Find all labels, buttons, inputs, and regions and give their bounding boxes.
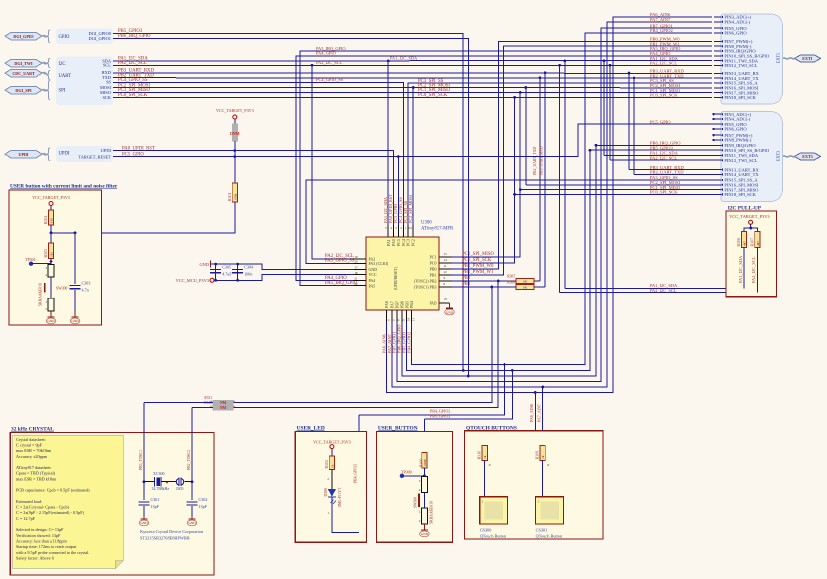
power flag VCC_TARGET_P3V3 at user button [49,202,53,206]
svg-text:PC4_GPIO_SS: PC4_GPIO_SS [316,77,344,82]
mcu right pin PB2 [439,280,452,282]
junction [74,232,77,235]
capacitor C301 [139,501,150,503]
mcu bottom pin PB7 [396,310,398,322]
svg-text:Kyocera Crystal Device Corpora: Kyocera Crystal Device Corporation [140,529,204,534]
svg-text:ST3215SB32768E0HPWBB: ST3215SB32768E0HPWBB [140,536,190,541]
LED D300 [328,489,336,496]
junction [524,86,527,89]
svg-text:PA7_AIN7: PA7_AIN7 [650,17,671,22]
svg-text:PA0_UPDI_RST: PA0_UPDI_RST [122,146,155,151]
svg-text:(TOSC2) PB2: (TOSC2) PB2 [414,279,437,284]
svg-text:DNM: DNM [230,131,240,136]
svg-text:DGI_GPIO0: DGI_GPIO0 [89,31,112,36]
ground at MCU PAD [449,306,451,309]
junction [541,386,544,389]
wire GND rail [210,264,354,269]
svg-text:J305: J305 [176,486,184,491]
svg-text:UPDI: UPDI [59,151,70,156]
svg-text:11: 11 [444,264,447,268]
EXT3 pin 8 stub [714,139,721,141]
wire PA6_AIN6 [387,17,712,393]
junction [233,149,236,152]
svg-text:PA4_GPIO: PA4_GPIO [325,276,347,281]
junction [462,369,465,372]
wire MISO to EXT3 PIN17 [520,189,716,191]
mcu top pin PA0 [392,225,394,237]
EXT3 unconnected pin 3 node [712,113,714,115]
EXT1 pin 7 stub [714,40,721,42]
mcu left pin GND [354,268,367,270]
svg-text:VCC_TARGET_P3V3: VCC_TARGET_P3V3 [32,195,70,200]
box QTOUCH BUTTONS [465,431,604,539]
wire PA3_GPIO_SS [306,180,716,263]
junction [544,71,547,74]
svg-text:PA1_I2C_SDA: PA1_I2C_SDA [390,56,418,61]
resistor R312 DNM [213,405,233,410]
wire PB4_GPIO2 to USER_LED [359,365,504,415]
svg-text:PA2_I2C_SCL: PA2_I2C_SCL [650,155,677,160]
ground at C303 [74,315,76,318]
svg-text:EXT1: EXT1 [802,56,812,61]
svg-text:R309: R309 [536,451,540,459]
junction [497,280,500,283]
wire PB1_PWM_W1 [452,46,712,275]
svg-text:1: 1 [537,500,539,504]
DGI com block [56,57,113,106]
net tag UPDI [5,150,42,158]
svg-text:with a 9.5pF probe connected t: with a 9.5pF probe connected to the crys… [16,550,89,555]
power flag VCC_MCU_P3V3 [210,278,214,282]
svg-text:U300: U300 [421,221,432,226]
svg-text:SW300: SW300 [56,287,67,291]
svg-text:VCC: VCC [369,272,378,277]
svg-text:PA3_GPIO_SS: PA3_GPIO_SS [325,259,355,264]
svg-text:PB4_GPIO2: PB4_GPIO2 [354,464,358,483]
svg-text:PB1_PWM_W1: PB1_PWM_W1 [462,270,494,275]
svg-text:100R: 100R [423,459,427,467]
svg-text:UART: UART [59,74,72,79]
wire TP300 to node [402,475,425,477]
wire PB6_IRQ_GPIO bottom [402,145,716,376]
EXT3 pin 10 stub [714,149,721,151]
EXT3 pin 7 stub [714,134,721,136]
wire R310 to CS300 [484,460,486,496]
wire R304 to node [50,225,52,243]
wire SCL branch to pull-up [559,65,561,292]
box 32 kHz CRYSTAL [10,433,214,575]
wire PA5_IRQ_GPIO [300,51,712,286]
junction [467,375,470,378]
svg-text:EXT3: EXT3 [802,154,812,159]
junction [490,286,493,289]
junction [143,480,146,483]
svg-text:EXT1: EXT1 [776,53,781,63]
junction [236,279,239,282]
wire PA0_UPDI_RST [113,151,393,225]
EXT1 pin 15 stub [714,82,721,84]
net tag DGI_SPI [5,86,42,94]
wire to C303 [74,233,76,284]
svg-text:QTouch Button: QTouch Button [480,534,507,539]
wire C304 leads [237,264,239,280]
svg-text:C = 2x(Ccrystal- Cpara - Cpcb): C = 2x(Ccrystal- Cpara - Cpcb) [16,505,70,510]
svg-text:TARGET_RESET: TARGET_RESET [78,154,111,159]
svg-text:PIN6_GPIO: PIN6_GPIO [724,31,747,36]
wire PB5_GPIO3 bottom [407,150,716,370]
svg-text:R302: R302 [325,460,329,468]
box USER button with current limit [9,190,102,325]
wire RXD to EXT3 PIN13 [629,169,716,171]
svg-text:PA6_AIN6: PA6_AIN6 [529,404,534,422]
capacitor C302 [187,501,198,503]
svg-text:SKRAAKE010: SKRAAKE010 [39,283,43,306]
svg-text:32 kHz CRYSTAL: 32 kHz CRYSTAL [11,427,54,433]
wire PB3_UART_RXD [113,72,712,75]
svg-text:R306: R306 [507,281,515,285]
wire PB2_UART_TXD [113,77,712,80]
wire to C301 [143,482,145,500]
svg-text:PB0: PB0 [430,267,437,272]
wire RXD branch to EXT3 [628,73,630,170]
EXT1 pin 4 stub [714,21,721,23]
svg-text:SCK: SCK [102,95,111,100]
svg-text:PA7_AIN7: PA7_AIN7 [536,404,541,422]
jumper J305 [176,479,178,485]
capacitor C304 [232,269,243,271]
svg-text:GPIO: GPIO [59,35,71,40]
box USER_BUTTON [377,432,453,543]
svg-text:11: 11 [411,318,415,321]
EXT3 pin 13 stub [714,169,721,171]
wire C302 to GND [191,506,193,517]
svg-text:PA5: PA5 [369,283,376,288]
svg-text:VCC_TARGET_P3V3: VCC_TARGET_P3V3 [729,214,770,219]
wire MOSI to EXT3 PIN16 [526,184,716,186]
svg-text:DGI_SPI: DGI_SPI [15,88,32,93]
wire PB3 to R306 [452,286,492,288]
EXT3 pin 5 stub [714,123,721,125]
svg-text:GND: GND [369,267,378,272]
wire TP301 to switch [31,263,51,265]
svg-text:GND: GND [421,532,429,536]
wire C305 leads [215,264,217,280]
svg-text:13pF: 13pF [151,504,160,509]
switch SW300 [48,264,54,277]
svg-text:PC0_SPI_SCK: PC0_SPI_SCK [650,93,678,98]
svg-text:4.7n: 4.7n [82,288,89,293]
svg-text:EXT3: EXT3 [776,151,781,161]
wire SCL to EXT3 PIN12 [610,159,716,161]
svg-text:PA2_I2C_SCL: PA2_I2C_SCL [316,60,343,65]
svg-text:C304: C304 [244,265,253,270]
svg-text:2k2: 2k2 [50,252,54,257]
svg-text:Verification showed: 13pF: Verification showed: 13pF [16,533,61,538]
svg-text:R307: R307 [750,238,754,246]
svg-text:Safety factor: Above 6: Safety factor: Above 6 [16,556,54,561]
svg-text:R305: R305 [507,275,515,279]
EXT1 pin 10 stub [714,55,721,57]
wire MOSI branch to EXT3 [525,88,527,185]
svg-text:PC0: PC0 [430,261,437,266]
wire VCC to R307 [744,224,751,231]
wire PC5 to R301 [234,157,236,183]
svg-text:DGI_GPIO1: DGI_GPIO1 [89,36,111,41]
EXT3 pin 18 stub [714,193,721,195]
svg-text:PCB capacitance: Cpcb = 0.5pF: PCB capacitance: Cpcb = 0.5pF (estimated… [16,488,90,493]
wire PB5_GPIO3 from DGI_GPIO0 [113,33,463,370]
mcu bottom pin PA7 [391,310,393,322]
svg-text:PA6: PA6 [384,301,389,308]
wire SW300 to GND [50,311,52,315]
svg-text:R306: R306 [737,238,741,246]
svg-text:22: 22 [354,282,358,286]
resistor R307 [741,232,746,248]
wire PA1_I2C_SDA [113,60,712,62]
resistor R311 DNM [213,400,233,405]
EXT3 pin 6 stub [714,128,721,130]
net tag CDC_UART [5,69,42,77]
wire TXD down to R305 [539,78,541,281]
wire PA7_AIN7 [392,22,712,387]
svg-text:13pF: 13pF [199,504,208,509]
svg-text:Accuracy ±20ppm: Accuracy ±20ppm [16,454,48,459]
EXT1 pin 3 stub [714,16,721,18]
svg-text:21: 21 [354,277,358,281]
svg-text:PC0_SPI_SCK: PC0_SPI_SCK [418,93,448,98]
wire PC2 pin riser [412,88,414,226]
junction [214,263,217,266]
mcu left pin VCC [354,274,367,276]
EXT3 unconnected pin 7 node [712,134,714,136]
qtouch pad CS301 [536,497,564,524]
EXT3 pin 9 stub [714,144,721,146]
junction [589,149,592,152]
svg-text:max ESR = 70kOhm: max ESR = 70kOhm [16,448,52,453]
wire SDA to EXT3 PIN11 [604,154,716,156]
wire TXD branch to EXT3 [633,78,635,174]
wire SDA branch to EXT3 [603,61,605,155]
svg-text:C301: C301 [151,497,160,502]
wire BUTTON riser [423,419,425,453]
wire VCC to R302 [331,449,333,456]
wire R305 to TXD riser [534,280,540,282]
power flag VCC_TARGET_P3V3 at LED [330,445,334,449]
wire SW to GND [423,524,425,527]
power flag VCC_TARGET_P3V3 at pull-up [749,220,753,224]
wire PB6_IRQ_GPIO from DGI_GPIO1 [113,38,468,376]
svg-text:USER_BUTTON: USER_BUTTON [378,426,418,432]
EXT3 pin 16 stub [714,184,721,186]
svg-text:Cpara = TBD (Typical): Cpara = TBD (Typical) [16,471,56,476]
svg-text:PAD: PAD [430,302,437,306]
junction [595,144,598,147]
mcu bottom pin PB6 [401,310,403,322]
wire PB2_TOSC2 row [233,281,498,408]
capacitor C303 [70,285,81,287]
svg-text:PIN18_SPI_SCK: PIN18_SPI_SCK [724,95,756,100]
svg-text:UPDI: UPDI [18,152,28,157]
wire PC1_SPI_MISO [113,91,712,93]
resistor R301 [232,183,237,202]
junction [233,155,236,158]
resistor R300 [422,453,427,469]
wire to C302 [191,482,193,500]
mcu U300 [366,237,439,310]
junction [609,64,612,67]
wire SCL branch to EXT3 [609,65,611,160]
wire PB4_GPIO2 [412,33,712,365]
mcu top pin PC4 [402,225,404,237]
junction [191,480,194,483]
svg-text:PIN12_TWI_SCL: PIN12_TWI_SCL [724,158,757,163]
junction [311,64,314,67]
resistor R310 [482,445,487,460]
DGI GPIO block [56,29,113,45]
svg-text:25: 25 [444,297,448,301]
wire PC0 pin to SCK [452,97,515,263]
junction [423,474,426,477]
wire VCC to R304 [50,206,52,211]
svg-text:PA2_I2C_SCL: PA2_I2C_SCL [650,61,677,66]
wire PC3_SPI_SS [408,83,712,225]
power flag VCC_TARGET_P3V3 at UPDI [233,115,237,119]
svg-text:QTouch Button: QTouch Button [536,534,563,539]
svg-text:PIN14_UART_TX: PIN14_UART_TX [724,172,759,177]
wire R307 to SDA row [743,248,745,289]
svg-text:PC0_SPI_SCK: PC0_SPI_SCK [118,93,148,98]
svg-text:Selected in design: C= 13pF: Selected in design: C= 13pF [16,527,64,532]
svg-text:PB4_GPIO2: PB4_GPIO2 [650,28,673,33]
EXT1 pin 14 stub [714,77,721,79]
svg-text:D300: D300 [324,488,328,496]
svg-text:R310: R310 [478,451,482,459]
junction [539,76,542,79]
UPDI block [56,146,113,162]
svg-text:DGI_TWI: DGI_TWI [14,61,33,66]
svg-text:ATtiny817-MFR: ATtiny817-MFR [421,227,454,232]
svg-text:PB4: PB4 [409,301,414,308]
svg-text:PC1_SPI_MISO: PC1_SPI_MISO [462,252,495,257]
wire PB3 to R306 b [492,286,516,288]
wire node to C303 [51,232,75,234]
wire TOSC1 left branch [143,403,145,482]
svg-text:PC0_SPI_SCK: PC0_SPI_SCK [462,258,492,263]
svg-text:GND: GND [47,319,55,323]
mcu right pin PC1 [439,256,452,258]
wire PC5 pin riser [397,157,399,225]
svg-text:Startup time: 172ms to reach o: Startup time: 172ms to reach output [16,544,77,549]
EXT1 pin 17 stub [714,92,721,94]
svg-text:NM: NM [220,401,227,405]
svg-text:PA2_I2C_SCL: PA2_I2C_SCL [751,256,756,283]
svg-text:PC1: PC1 [430,255,437,260]
junction [387,60,390,63]
svg-text:32.768kHz: 32.768kHz [152,486,170,491]
wire TOSC2 right branch [191,408,193,482]
junction [511,369,514,372]
svg-text:4k7: 4k7 [756,241,760,246]
mcu right pin PB3 [439,286,452,288]
wire R309 to CS301 [542,460,544,496]
wire TXD to EXT3 PIN14 [634,173,716,175]
svg-text:SPI: SPI [59,89,66,94]
ground at C302 [191,517,193,520]
junction [563,60,566,63]
resistor R304 [48,210,53,225]
EXT3 pin 3 stub [714,113,721,115]
mcu bottom pin PB5 [406,310,408,322]
svg-text:ATtiny817 datasheet:: ATtiny817 datasheet: [16,465,52,470]
svg-text:PIN6_GPIO: PIN6_GPIO [724,127,747,132]
svg-text:GND: GND [199,262,209,267]
crystal XC300 [144,481,154,483]
resistor R308 [755,232,760,248]
wire RXD down to R306 [544,73,546,287]
net tag DGI_TWI [5,59,42,67]
wire VCC to R308 [751,228,758,232]
ground at SW301 [423,528,425,531]
svg-text:SCL: SCL [103,63,111,68]
wire R308 to SCL row [756,248,758,293]
resistor R309 [540,445,545,460]
resistor R303 [48,243,53,259]
svg-text:GND: GND [188,521,196,525]
wire PA4_GPIO [296,56,712,281]
junction [603,60,606,63]
box I2C PULL-UP [726,211,776,297]
svg-text:PA6_AIN6: PA6_AIN6 [381,334,386,353]
net tag EXT3 [795,153,821,160]
svg-text:12: 12 [444,270,448,274]
svg-text:PIN18_SPI_SCK: PIN18_SPI_SCK [724,192,756,197]
svg-text:1: 1 [482,500,484,504]
wire PA7_AIN7 to QTouch [542,387,544,445]
wire PA2_I2C_SCL [113,64,712,66]
wire PB0_PWM_W0 [452,41,712,269]
mcu left pin PA2 [354,258,367,260]
svg-text:SKRAAKE010: SKRAAKE010 [430,501,434,524]
wire PC4_GPIO_SS [113,82,403,225]
svg-text:C crystal = 9pF: C crystal = 9pF [16,442,43,447]
svg-text:GND: GND [71,319,79,323]
junction [749,227,752,230]
svg-text:PIN12_TWI_SCL: PIN12_TWI_SCL [724,63,757,68]
svg-text:PB1: PB1 [430,273,437,278]
mcu top pin PC3 [407,225,409,237]
svg-text:PA1_I2C_SDA: PA1_I2C_SDA [738,255,743,283]
wire crystal to R312 [192,407,213,409]
box USER_LED [295,432,366,543]
EXT3 pin 17 stub [714,189,721,191]
svg-text:PA4: PA4 [369,278,376,283]
junction [633,77,636,80]
mcu right pin PB1 [439,274,452,276]
svg-text:1k: 1k [541,455,545,459]
junction [534,391,537,394]
stem [74,312,76,315]
svg-text:330: 330 [50,218,54,223]
svg-text:PB2_UART_TXD: PB2_UART_TXD [650,170,684,175]
svg-text:C = 12.7pF: C = 12.7pF [16,516,36,521]
net tag DGI_GPIO [5,32,42,40]
wire PB5_GPIO3 to USER_BUTTON [424,370,512,418]
mcu left pin PA5 [354,285,367,287]
wire LED to riser [332,497,359,533]
svg-text:PIN4_ADC(-): PIN4_ADC(-) [724,20,750,25]
svg-text:I2C: I2C [59,62,66,67]
svg-text:PC2: PC2 [411,239,416,246]
